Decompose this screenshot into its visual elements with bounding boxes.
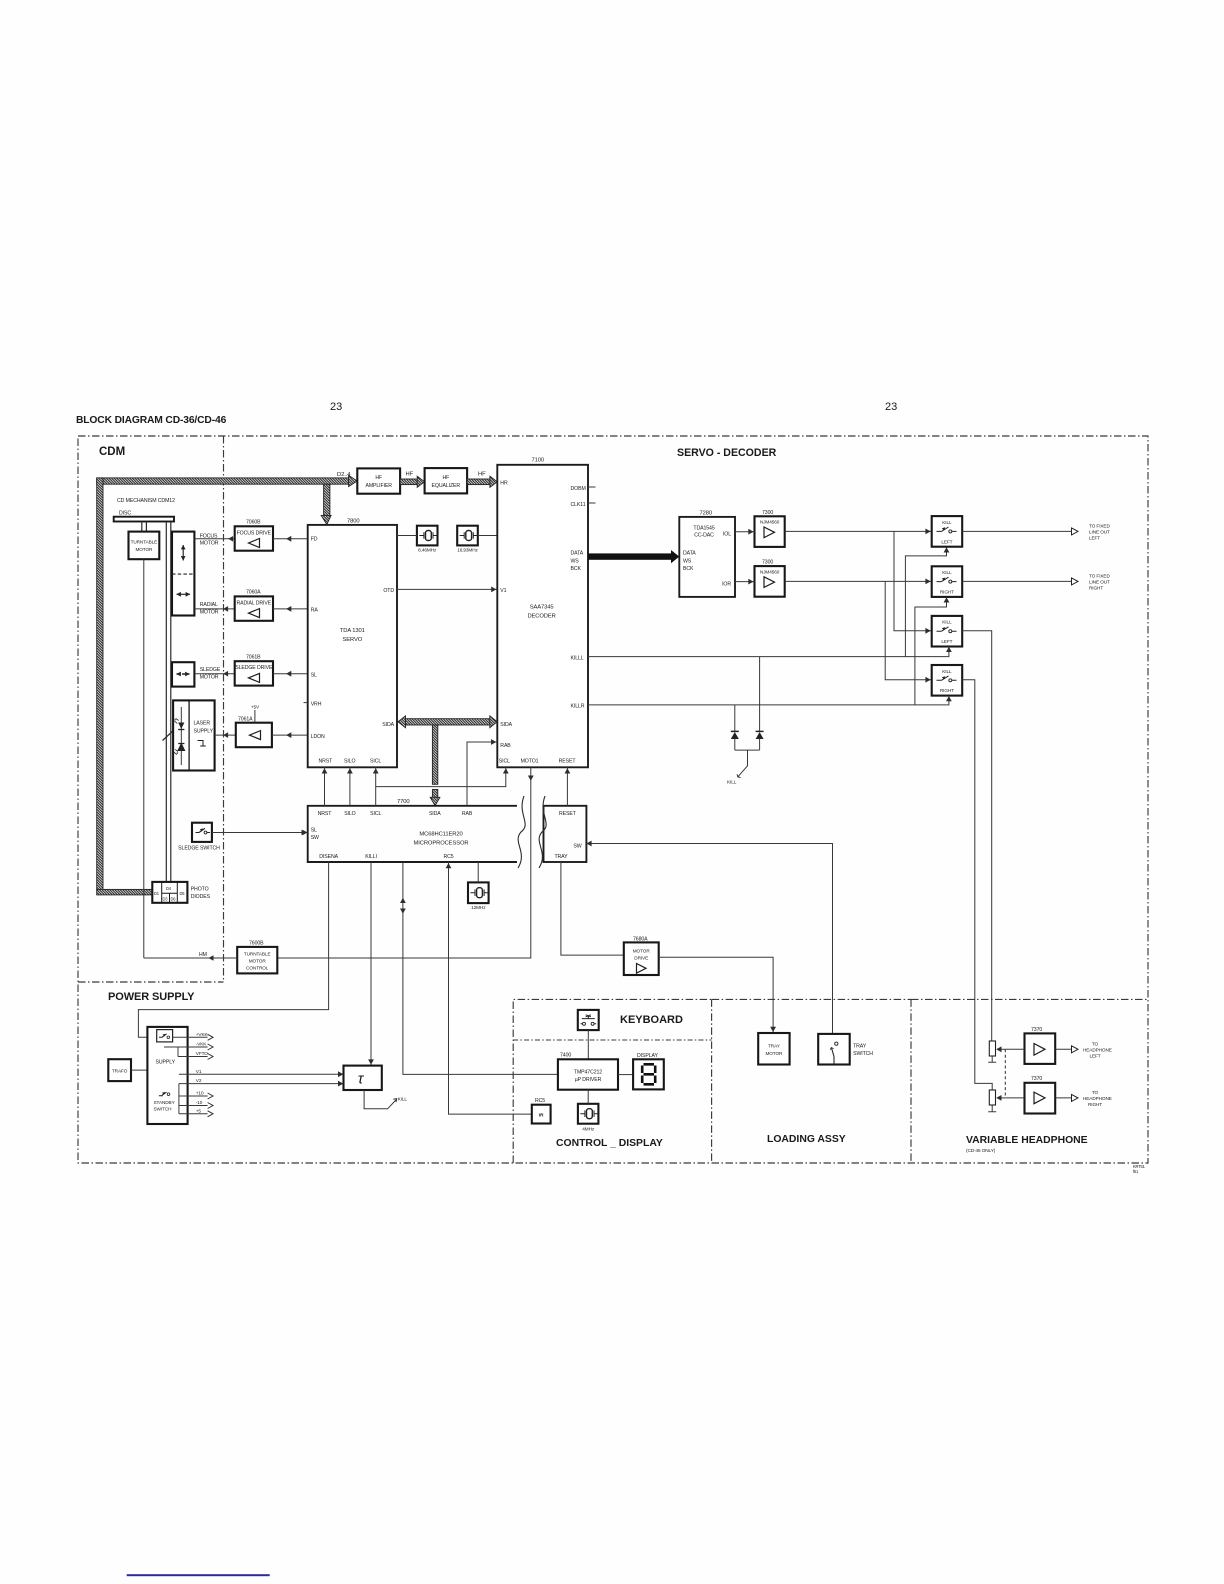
svg-text:POWER SUPPLY: POWER SUPPLY bbox=[108, 991, 195, 1003]
svg-text:PHOTO: PHOTO bbox=[191, 887, 209, 893]
wire branch L to kill left variable bbox=[894, 531, 932, 630]
svg-text:DRIVE: DRIVE bbox=[634, 956, 648, 961]
svg-text:V2: V2 bbox=[196, 1078, 202, 1083]
hatched SIDA drop to microprocessor bbox=[430, 725, 440, 806]
focus/radial actuator block bbox=[172, 532, 194, 616]
svg-text:WS: WS bbox=[571, 558, 580, 564]
svg-text:AMPLIFIER: AMPLIFIER bbox=[365, 483, 392, 489]
svg-text:RC5: RC5 bbox=[535, 1098, 545, 1104]
wire branch R to kill right variable bbox=[885, 581, 932, 679]
tray switch bbox=[818, 1034, 873, 1065]
svg-text:SW: SW bbox=[573, 843, 581, 849]
kill switch block right fixed bbox=[932, 566, 963, 597]
svg-text:DOBM: DOBM bbox=[571, 486, 586, 492]
keyboard divider bbox=[513, 1039, 711, 1041]
svg-text:KILL: KILL bbox=[942, 669, 952, 674]
svg-text:DISPLAY: DISPLAY bbox=[637, 1053, 658, 1059]
svg-text:SW: SW bbox=[311, 835, 319, 841]
display driver TMP47C212 7400 bbox=[558, 1052, 618, 1089]
svg-text:CONTROL: CONTROL bbox=[246, 966, 269, 971]
svg-text:TO FIXED: TO FIXED bbox=[1089, 524, 1110, 529]
svg-text:MOTO1: MOTO1 bbox=[521, 759, 539, 765]
svg-text:HF: HF bbox=[406, 472, 414, 478]
svg-text:16,93MHz: 16,93MHz bbox=[457, 548, 478, 553]
VRH stub bbox=[304, 702, 308, 704]
DOBM stub bbox=[588, 486, 596, 488]
wire sledge motor to sledge drive bbox=[194, 673, 234, 675]
hatched wire HF amp to HF equalizer bbox=[400, 476, 424, 487]
svg-text:SERVO - DECODER: SERVO - DECODER bbox=[677, 447, 777, 459]
svg-text:SILO: SILO bbox=[344, 811, 355, 817]
svg-text:RC5: RC5 bbox=[443, 854, 453, 860]
seven segment display bbox=[633, 1053, 664, 1090]
svg-text:7370: 7370 bbox=[1031, 1027, 1042, 1033]
svg-text:SL: SL bbox=[311, 828, 317, 834]
svg-text:7061A: 7061A bbox=[238, 716, 253, 722]
svg-text:7060A: 7060A bbox=[246, 590, 261, 596]
svg-text:4MHz: 4MHz bbox=[582, 1127, 595, 1132]
keyboard button icon bbox=[578, 1010, 599, 1030]
svg-text:V1: V1 bbox=[196, 1069, 202, 1074]
svg-text:HEADPHONE: HEADPHONE bbox=[1083, 1096, 1112, 1101]
svg-text:RADIAL: RADIAL bbox=[200, 602, 218, 608]
svg-text:LDON: LDON bbox=[311, 734, 325, 740]
svg-text:FOCUS DRIVE: FOCUS DRIVE bbox=[237, 530, 272, 536]
svg-text:NJM4560: NJM4560 bbox=[760, 569, 780, 574]
headphone pot left bbox=[988, 1041, 1005, 1062]
wire kill left variable to headphone pot bbox=[962, 631, 992, 1041]
wire microprocessor SL SW input arrow bbox=[303, 830, 308, 836]
wire servo RA to radial drive bbox=[273, 608, 308, 610]
svg-text:LEFT: LEFT bbox=[941, 539, 952, 544]
svg-text:(CD-46 ONLY): (CD-46 ONLY) bbox=[966, 1148, 996, 1153]
svg-text:TO FIXED: TO FIXED bbox=[1089, 574, 1110, 579]
kill mute diode right bbox=[756, 657, 764, 751]
tau timer block bbox=[344, 1066, 382, 1090]
wire crystal to decoder bbox=[478, 535, 498, 537]
bottom section box VARIABLE HEADPHONE bbox=[911, 999, 1148, 1163]
svg-text:KILL: KILL bbox=[727, 780, 737, 785]
wire display driver to 4MHz bbox=[587, 1090, 589, 1104]
wire kill right variable to headphone pot bbox=[962, 680, 992, 1090]
svg-text:KILLL: KILLL bbox=[571, 655, 584, 661]
svg-text:TO: TO bbox=[1092, 1090, 1099, 1095]
svg-text:LASER: LASER bbox=[194, 721, 211, 727]
svg-text:7060B: 7060B bbox=[246, 520, 261, 526]
bidirectional wire microprocessor to display driver bbox=[400, 862, 558, 1074]
svg-text:KEYBOARD: KEYBOARD bbox=[620, 1014, 683, 1026]
kill switch block left variable bbox=[932, 616, 963, 647]
svg-text:HF: HF bbox=[478, 472, 486, 478]
kill mute diode left bbox=[731, 705, 739, 750]
svg-text:MOTOR: MOTOR bbox=[200, 609, 219, 615]
svg-text:µP DRIVER: µP DRIVER bbox=[575, 1077, 602, 1083]
svg-text:7370: 7370 bbox=[1031, 1076, 1042, 1082]
gang dashed link bbox=[1004, 1049, 1006, 1098]
wire RC5 from IR receiver bbox=[449, 862, 532, 1114]
svg-text:HM: HM bbox=[199, 952, 207, 958]
servo TDA1301 bbox=[308, 519, 397, 768]
svg-text:VRH: VRH bbox=[311, 701, 322, 707]
wire SW from tray switch bbox=[586, 844, 832, 1034]
svg-text:RIGHT: RIGHT bbox=[940, 688, 954, 693]
net KILLR from decoder bbox=[588, 597, 949, 705]
wire DAC IOR to op-amp bbox=[735, 581, 755, 583]
svg-text:DISENA: DISENA bbox=[319, 854, 338, 860]
wire turntable motor to HM line bbox=[143, 559, 145, 958]
svg-text:BCK: BCK bbox=[683, 566, 694, 572]
hatched wire HF equalizer to decoder HR bbox=[467, 476, 497, 487]
svg-text:NRST: NRST bbox=[319, 759, 334, 765]
wire servo OTD to decoder V1 bbox=[397, 588, 497, 590]
svg-text:VFTO: VFTO bbox=[196, 1051, 208, 1056]
svg-text:23: 23 bbox=[885, 401, 897, 413]
svg-text:IR: IR bbox=[539, 1113, 544, 1118]
svg-text:HF: HF bbox=[442, 475, 449, 481]
svg-text:RADIAL DRIVE: RADIAL DRIVE bbox=[236, 600, 271, 606]
wire pot to amp left bbox=[1005, 1048, 1024, 1050]
DAC TDA1545 bbox=[679, 511, 735, 597]
wire sledge switch to microprocessor SL SW bbox=[212, 832, 308, 834]
svg-text:SERVO: SERVO bbox=[342, 637, 362, 643]
svg-text:EQUALIZER: EQUALIZER bbox=[432, 483, 461, 489]
svg-text:12MHz: 12MHz bbox=[471, 905, 486, 910]
wire servo LDON to laser drive bbox=[272, 734, 308, 736]
loading motor drive 7680A bbox=[624, 937, 659, 976]
crystal 4MHz bbox=[578, 1104, 599, 1132]
svg-text:NRST: NRST bbox=[318, 811, 333, 817]
wire focus motor to focus drive bbox=[194, 538, 234, 540]
hatched HF cable from CDM to HF amplifier bbox=[97, 475, 358, 895]
svg-text:RIGHT: RIGHT bbox=[1089, 586, 1103, 591]
tray motor bbox=[758, 1033, 789, 1065]
wire 12MHz to microprocessor bbox=[477, 862, 479, 882]
svg-text:CD MECHANISM CDM12: CD MECHANISM CDM12 bbox=[117, 498, 175, 504]
svg-text:TO: TO bbox=[1092, 1042, 1099, 1047]
svg-text:TMP47C212: TMP47C212 bbox=[574, 1069, 602, 1075]
svg-text:SWITCH: SWITCH bbox=[853, 1051, 873, 1057]
svg-text:7400: 7400 bbox=[560, 1052, 571, 1058]
svg-text:LEFT: LEFT bbox=[1089, 1054, 1100, 1059]
supply block bbox=[147, 1027, 187, 1124]
svg-text:+5: +5 bbox=[196, 1108, 202, 1113]
svg-text:KILL: KILL bbox=[398, 1097, 408, 1102]
turntable motor bbox=[129, 532, 160, 560]
svg-text:CDM: CDM bbox=[99, 446, 125, 458]
svg-text:RIGHT: RIGHT bbox=[1088, 1102, 1102, 1107]
crystal 16,93MHz bbox=[457, 526, 478, 553]
svg-text:CC-DAC: CC-DAC bbox=[694, 533, 714, 539]
svg-text:MICROPROCESSOR: MICROPROCESSOR bbox=[414, 841, 469, 847]
CLK11 stub bbox=[588, 502, 596, 504]
wire pot to amp right bbox=[1005, 1097, 1024, 1099]
kill switch block left fixed bbox=[932, 516, 963, 547]
svg-text:RAB: RAB bbox=[500, 743, 511, 749]
tray part pins bbox=[554, 811, 581, 860]
disc bbox=[114, 511, 174, 522]
svg-text:+10: +10 bbox=[196, 1091, 204, 1096]
wire RAB microprocessor to decoder bbox=[467, 742, 497, 806]
svg-text:RA: RA bbox=[311, 608, 319, 614]
svg-text:DIODES: DIODES bbox=[191, 894, 211, 900]
crystal 8,46MHz bbox=[417, 526, 438, 553]
svg-text:SIDA: SIDA bbox=[500, 722, 512, 728]
svg-text:SUPPLY: SUPPLY bbox=[156, 1060, 176, 1066]
supply output +5 bbox=[179, 1108, 213, 1116]
sledge switch bbox=[178, 823, 220, 852]
svg-text:SLEDGE: SLEDGE bbox=[200, 667, 221, 673]
svg-text:SICL: SICL bbox=[370, 811, 381, 817]
svg-text:7300: 7300 bbox=[762, 560, 773, 566]
wire SILO microprocessor to servo bbox=[349, 767, 351, 806]
wire KILLI to tau block bbox=[370, 862, 372, 1066]
wire laser supply to laser drive 7061A bbox=[215, 734, 236, 736]
svg-text:+VKK: +VKK bbox=[196, 1032, 209, 1037]
laser drive 7061A bbox=[236, 705, 272, 748]
svg-text:BCK: BCK bbox=[571, 566, 582, 572]
svg-text:FD: FD bbox=[311, 536, 318, 542]
svg-text:7300: 7300 bbox=[762, 510, 773, 516]
line out right wire and arrow bbox=[962, 574, 1110, 591]
svg-text:SIDA: SIDA bbox=[429, 811, 441, 817]
wire DAC IOL to op-amp bbox=[735, 531, 755, 533]
svg-text:RIGHT: RIGHT bbox=[940, 590, 954, 595]
svg-text:DISC: DISC bbox=[119, 511, 131, 517]
svg-text:TURNTABLE: TURNTABLE bbox=[131, 539, 158, 544]
svg-text:+5V: +5V bbox=[251, 705, 260, 710]
svg-text:WS: WS bbox=[683, 558, 692, 564]
radial drive 7060A bbox=[235, 590, 273, 621]
bottom blue rule bbox=[127, 1574, 270, 1576]
svg-text:MOTOR: MOTOR bbox=[765, 1051, 783, 1056]
wire servo FD to focus drive bbox=[273, 538, 308, 540]
svg-text:8,46MHz: 8,46MHz bbox=[418, 548, 437, 553]
decoder SAA7345 bbox=[497, 458, 588, 768]
svg-text:NJM4560: NJM4560 bbox=[760, 520, 780, 525]
hatched branch to servo D1..5 bbox=[321, 484, 331, 524]
laser supply block bbox=[173, 700, 215, 770]
kill switch block right variable bbox=[932, 665, 963, 696]
headphone amp left 7370 bbox=[1025, 1027, 1056, 1064]
svg-text:SLEDGE SWITCH: SLEDGE SWITCH bbox=[178, 846, 220, 852]
svg-text:RAB: RAB bbox=[462, 811, 473, 817]
svg-text:DATA: DATA bbox=[571, 551, 584, 557]
svg-text:-10: -10 bbox=[196, 1100, 203, 1105]
svg-text:CLK11: CLK11 bbox=[571, 502, 586, 508]
svg-text:OTD: OTD bbox=[383, 588, 394, 594]
svg-text:7800: 7800 bbox=[347, 519, 360, 525]
svg-text:SILO: SILO bbox=[344, 759, 355, 765]
supply output -VKK bbox=[164, 1042, 213, 1051]
optics column bbox=[166, 522, 171, 882]
hatched SIDA bus servo-decoder bbox=[398, 716, 497, 728]
HF amplifier bbox=[357, 468, 400, 493]
svg-text:CONTROL _ DISPLAY: CONTROL _ DISPLAY bbox=[556, 1138, 663, 1149]
supply output +10 bbox=[179, 1091, 213, 1099]
CDM section divider bbox=[223, 436, 225, 982]
svg-text:HR: HR bbox=[500, 480, 508, 486]
photo diodes bbox=[152, 882, 210, 903]
svg-text:TDA 1301: TDA 1301 bbox=[340, 628, 365, 634]
break waves on microprocessor bbox=[518, 796, 525, 868]
svg-text:MC68HC11ER20: MC68HC11ER20 bbox=[419, 832, 462, 838]
svg-text:KILLI: KILLI bbox=[365, 854, 377, 860]
svg-text:TRAY: TRAY bbox=[853, 1044, 867, 1050]
supply output +VKK bbox=[173, 1032, 213, 1041]
wire op-amp R to kill right fixed bbox=[785, 580, 932, 582]
wire RESET tray part to decoder bbox=[566, 767, 568, 806]
HF equalizer bbox=[425, 468, 468, 493]
wire radial motor to radial drive bbox=[194, 608, 234, 610]
svg-text:LOADING ASSY: LOADING ASSY bbox=[767, 1134, 846, 1145]
wire DISENA to power supply bbox=[138, 862, 328, 1037]
wire op-amp L to kill left fixed bbox=[785, 530, 932, 532]
op-amp NJM4560 left 7300 bbox=[755, 510, 785, 547]
bottom section box CONTROL_DISPLAY bbox=[513, 999, 711, 1163]
svg-text:KILLR: KILLR bbox=[571, 704, 585, 710]
line out left wire and arrow bbox=[962, 524, 1110, 541]
svg-text:23: 23 bbox=[330, 401, 342, 413]
op-amp NJM4560 right 7300 bbox=[755, 560, 785, 597]
wire trafo to supply bbox=[131, 1069, 147, 1071]
svg-text:SL: SL bbox=[311, 672, 317, 678]
svg-text:SIDA: SIDA bbox=[382, 722, 394, 728]
sledge motor block bbox=[172, 662, 194, 686]
svg-text:7100: 7100 bbox=[532, 458, 545, 464]
beam splitter tick bbox=[163, 730, 175, 741]
focus drive 7060B bbox=[235, 520, 273, 551]
headphone pot right bbox=[988, 1090, 1005, 1112]
microprocessor MC68HC11ER20 bbox=[308, 799, 587, 862]
svg-text:VARIABLE HEADPHONE: VARIABLE HEADPHONE bbox=[966, 1135, 1088, 1146]
svg-text:DECODER: DECODER bbox=[527, 614, 555, 620]
wire display driver to display bbox=[618, 1074, 633, 1076]
svg-text:LEFT: LEFT bbox=[1089, 536, 1100, 541]
svg-text:STANDBY: STANDBY bbox=[154, 1100, 176, 1105]
headphone amp right 7370 bbox=[1025, 1076, 1056, 1113]
wire servo SL to sledge drive bbox=[273, 673, 308, 675]
supply output V2 to tau bbox=[179, 1078, 344, 1086]
wire TRAY to loading motor drive bbox=[561, 862, 624, 955]
svg-text:RESET: RESET bbox=[559, 759, 577, 765]
wire SICL microprocessor to servo and decoder bbox=[376, 767, 506, 806]
svg-text:7061B: 7061B bbox=[246, 654, 261, 660]
wire NRST microprocessor to servo bbox=[324, 767, 326, 806]
wire decoder MOTO1 to turntable motor control bbox=[277, 767, 531, 958]
svg-text:TDA1545: TDA1545 bbox=[693, 526, 714, 532]
svg-text:TRAY: TRAY bbox=[768, 1043, 781, 1048]
crystal 12MHz bbox=[468, 882, 489, 910]
kill switch lever bbox=[727, 750, 760, 784]
supply output VFTO bbox=[178, 1051, 213, 1060]
svg-text:SICL: SICL bbox=[370, 759, 381, 765]
svg-text:7280: 7280 bbox=[700, 511, 713, 517]
kill lever from tau bbox=[364, 1090, 407, 1109]
headphone right output bbox=[1055, 1090, 1112, 1107]
svg-text:SWITCH: SWITCH bbox=[154, 1107, 172, 1112]
wire servo to crystal bbox=[397, 535, 417, 537]
svg-text:DATA: DATA bbox=[683, 551, 696, 557]
outer dash-dot border bbox=[78, 436, 1148, 1163]
thick I2S bus decoder to DAC bbox=[588, 550, 679, 563]
svg-text:D2..4: D2..4 bbox=[337, 472, 351, 478]
supply output -10 bbox=[179, 1100, 213, 1108]
svg-text:LINE OUT: LINE OUT bbox=[1089, 530, 1110, 535]
svg-text:TRAFO: TRAFO bbox=[112, 1069, 128, 1074]
wire motor drive to tray motor bbox=[659, 957, 773, 1033]
headphone left output bbox=[1055, 1042, 1112, 1059]
IR receiver RC5 bbox=[532, 1098, 551, 1124]
svg-text:7700: 7700 bbox=[397, 799, 410, 805]
turntable motor control 7600B bbox=[237, 941, 277, 974]
spindle bbox=[142, 522, 147, 532]
svg-text:SAA7345: SAA7345 bbox=[530, 605, 554, 611]
svg-text:LINE OUT: LINE OUT bbox=[1089, 580, 1110, 585]
svg-text:MOTOR: MOTOR bbox=[135, 547, 153, 552]
svg-text:-VKK: -VKK bbox=[196, 1042, 208, 1047]
svg-text:TURNTABLE: TURNTABLE bbox=[244, 952, 271, 957]
svg-text:HEADPHONE: HEADPHONE bbox=[1083, 1048, 1112, 1053]
svg-text:SUPPLY: SUPPLY bbox=[194, 729, 214, 735]
CDM bottom border bbox=[78, 981, 224, 983]
svg-text:MOTOR: MOTOR bbox=[200, 541, 219, 547]
sledge drive 7061B bbox=[235, 654, 273, 685]
svg-text:KILL: KILL bbox=[942, 570, 952, 575]
svg-text:MOTOR: MOTOR bbox=[633, 949, 651, 954]
supply output V1 to tau bbox=[179, 1069, 344, 1077]
svg-text:IOR: IOR bbox=[722, 582, 731, 588]
svg-text:V1: V1 bbox=[500, 588, 506, 594]
svg-text:IOL: IOL bbox=[723, 532, 731, 538]
svg-text:BLOCK DIAGRAM CD-36/CD-46: BLOCK DIAGRAM CD-36/CD-46 bbox=[76, 415, 227, 426]
svg-text:MOTOR: MOTOR bbox=[249, 959, 267, 964]
svg-text:HF: HF bbox=[375, 475, 382, 481]
svg-text:TRAY: TRAY bbox=[554, 854, 568, 860]
net KILLL from decoder bbox=[588, 548, 949, 657]
svg-text:SICL: SICL bbox=[499, 759, 510, 765]
wire keyboard to display driver bbox=[587, 1030, 589, 1059]
svg-text:LEFT: LEFT bbox=[941, 639, 952, 644]
svg-text:KILL: KILL bbox=[942, 520, 952, 525]
svg-text:RESET: RESET bbox=[559, 811, 577, 817]
wire HM to turntable motor bbox=[144, 952, 237, 961]
bottom section box LOADING ASSY bbox=[712, 999, 911, 1163]
svg-text:SLEDGE DRIVE: SLEDGE DRIVE bbox=[235, 665, 273, 671]
trafo bbox=[108, 1059, 131, 1081]
svg-text:KILL: KILL bbox=[942, 620, 952, 625]
svg-text:7600B: 7600B bbox=[249, 941, 264, 947]
svg-text:MOTOR: MOTOR bbox=[200, 675, 219, 681]
